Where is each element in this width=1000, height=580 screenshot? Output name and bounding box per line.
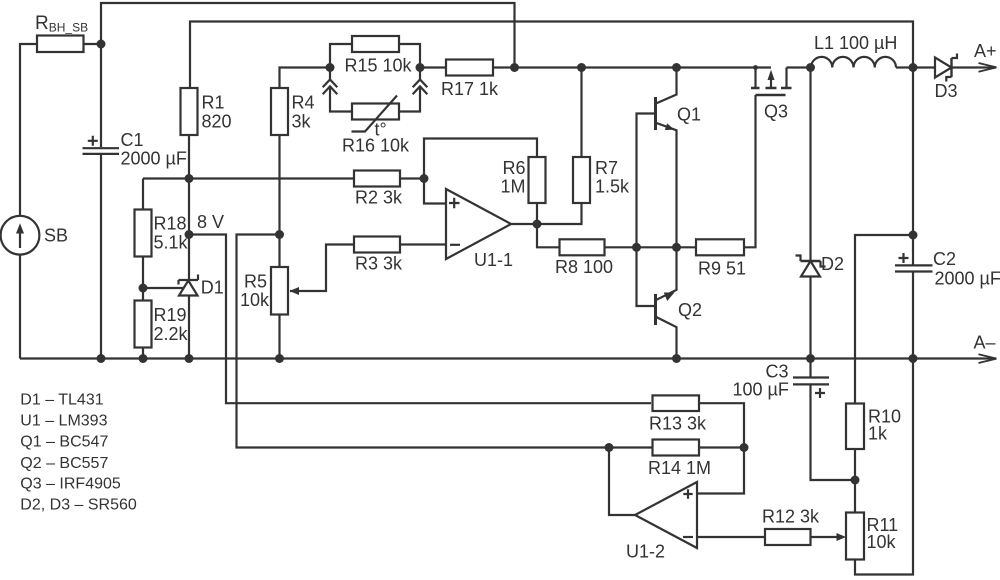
resistor R15 <box>345 36 413 76</box>
svg-text:R16 10k: R16 10k <box>342 136 410 156</box>
resistor R19 <box>135 301 189 348</box>
resistor R_BH_SB <box>35 13 88 52</box>
legend text <box>20 392 137 514</box>
svg-text:1.5k: 1.5k <box>595 177 630 197</box>
resistor R14 <box>648 440 711 479</box>
svg-text:C3: C3 <box>766 362 789 382</box>
wire right column from D3 node down to C2 top plate <box>912 68 914 266</box>
resistor R18 <box>135 210 189 257</box>
svg-text:Q2: Q2 <box>678 300 702 320</box>
resistor R9 <box>696 239 746 278</box>
wire top feedback line from R_BH_SB node up and across to R17 right node <box>101 3 515 68</box>
wire from Q3 drain corner to L1 left node <box>787 66 812 68</box>
node L1 right / D3 anode <box>909 63 918 72</box>
svg-text:D2: D2 <box>821 254 844 274</box>
wire R7 bottom bend to output node <box>537 203 582 224</box>
wire R19 bottom to A- rail <box>142 348 144 359</box>
svg-text:U1-1: U1-1 <box>474 250 513 270</box>
wire from L1 right to D3 anode <box>896 66 935 68</box>
wire R4/R5 node across and down to R14 left <box>237 235 653 448</box>
wire D1 anode down to A- rail <box>188 296 190 359</box>
node U1-1 output <box>533 220 542 229</box>
svg-text:R7: R7 <box>595 158 618 178</box>
current source SB <box>1 216 68 255</box>
svg-text:A–: A– <box>974 333 996 353</box>
svg-text:R1: R1 <box>202 93 225 113</box>
node rail R5 <box>275 354 284 363</box>
wire from R_BH_SB right end to node <box>83 43 101 45</box>
svg-text:R18: R18 <box>154 214 187 234</box>
wire Q1 emitter to shared node <box>657 123 677 247</box>
node R17 right <box>510 63 519 72</box>
svg-text:SB: SB <box>44 226 68 246</box>
svg-text:Q2 – BC557: Q2 – BC557 <box>20 455 108 472</box>
potentiometer R11 <box>837 513 899 560</box>
svg-text:D3: D3 <box>935 81 958 101</box>
svg-text:C2: C2 <box>933 249 956 269</box>
wire corner down to R18 top <box>142 179 144 210</box>
resistor R3 <box>354 237 403 274</box>
chevron marks right of R15/R16 pair <box>413 80 428 95</box>
wire output node down to R8 left <box>537 224 560 247</box>
wire node row y=178.5 from R18 corner to R2 left <box>143 177 354 179</box>
node L1 left / D2 top <box>806 63 815 72</box>
resistor R2 <box>354 171 403 208</box>
wire top rail from R1 top across to right column <box>190 22 913 89</box>
svg-text:RBH_SB: RBH_SB <box>35 13 88 34</box>
wire R15 upper branch <box>330 44 420 68</box>
resistor R1 <box>181 88 232 135</box>
wire R13 right bend down through node to U1-2 plus input <box>697 403 744 493</box>
svg-text:R8 100: R8 100 <box>555 257 613 277</box>
output arrow A+ <box>974 41 997 72</box>
wire branch from right column node to R10 top <box>855 235 913 404</box>
wire from R17 right to Q3 source junction <box>493 66 756 68</box>
wire R14 right to node <box>699 446 744 448</box>
wire from R15/R16 right node to R17 <box>420 66 446 68</box>
svg-text:R6: R6 <box>502 158 525 178</box>
wire A- bottom rail <box>20 357 996 359</box>
wire Q2 emitter from shared node <box>656 247 677 300</box>
svg-text:100 µF: 100 µF <box>733 380 789 400</box>
node 8V <box>185 230 194 239</box>
node rail R19 <box>139 354 148 363</box>
svg-text:A+: A+ <box>974 41 997 61</box>
wire R9 right bend up to Q3 gate <box>744 95 756 247</box>
node R18/R19 junction <box>139 284 148 293</box>
wire U1-2 minus input to R12 left <box>697 536 765 538</box>
wire C1 column upper segment from node to C1 top plate <box>100 44 102 147</box>
potentiometer R5 <box>240 267 299 315</box>
svg-text:2000 µF: 2000 µF <box>935 269 1000 289</box>
wire 8V node across and down to R13 left <box>189 235 651 404</box>
svg-text:R9 51: R9 51 <box>698 259 746 279</box>
svg-text:C1: C1 <box>121 130 144 150</box>
transistor Q2 <box>656 293 703 326</box>
svg-text:2.2k: 2.2k <box>154 324 189 344</box>
resistor R13 <box>649 395 707 433</box>
svg-text:10k: 10k <box>867 532 897 552</box>
wire R6 bottom to output node <box>536 203 538 224</box>
svg-text:R2 3k: R2 3k <box>355 188 403 208</box>
svg-text:L1 100 µH: L1 100 µH <box>814 33 897 53</box>
wire R18 bottom to R19 top through junction <box>142 257 144 301</box>
node Q1 collector <box>672 63 681 72</box>
node R15/R16 right <box>416 63 425 72</box>
node R10 branch <box>909 231 918 240</box>
wire R7 top lead to main row <box>580 68 582 158</box>
svg-text:Q1: Q1 <box>677 105 701 125</box>
svg-text:R19: R19 <box>154 305 187 325</box>
node rail C2 <box>909 354 918 363</box>
wire feedback node down to U1-1 plus input <box>424 179 446 204</box>
schottky diode D2 <box>796 254 845 277</box>
svg-text:2000 µF: 2000 µF <box>121 149 187 169</box>
node rail D2/C3 <box>806 354 815 363</box>
resistor R6 <box>500 157 545 203</box>
resistor R8 <box>555 239 613 277</box>
schottky diode D3 <box>935 54 958 102</box>
wire D2 anode down to A- rail node <box>809 277 811 378</box>
svg-text:R3 3k: R3 3k <box>355 254 403 274</box>
wire R16 lower branch <box>330 68 420 112</box>
wire D1 reference lead from divider junction <box>143 287 184 289</box>
thermistor R16 <box>342 96 410 156</box>
wire Q1 collector from main row <box>657 68 677 104</box>
chevron marks left of R15/R16 pair <box>323 80 338 95</box>
node Q1/Q2 base <box>632 243 641 252</box>
output arrow A- <box>974 333 997 364</box>
svg-text:10k: 10k <box>240 290 270 310</box>
node rail C1 <box>97 354 106 363</box>
wire main row y=67.5: R4 top lead and corner to R15/R16 left node <box>280 68 331 89</box>
inductor L1 <box>811 33 897 68</box>
svg-text:820: 820 <box>202 112 232 132</box>
svg-text:5.1k: 5.1k <box>154 233 189 253</box>
svg-text:R12 3k: R12 3k <box>762 507 820 527</box>
wire from R_BH_SB left end down to SB source top <box>20 44 37 216</box>
capacitor C3 <box>733 362 830 400</box>
resistor R4 <box>271 88 315 135</box>
svg-text:D1: D1 <box>201 278 224 298</box>
svg-text:Q3: Q3 <box>764 102 788 122</box>
svg-text:D1 – TL431: D1 – TL431 <box>20 392 103 409</box>
node U1-2 output on R14 line <box>605 443 614 452</box>
node R2 right feedback <box>420 174 429 183</box>
wire feedback node up and across to R6 top <box>424 139 537 179</box>
wire D2 column from main row to D2 cathode <box>809 68 811 262</box>
svg-text:1M: 1M <box>500 177 525 197</box>
svg-text:3k: 3k <box>292 112 312 132</box>
wire R10 bottom to R11 top through node <box>854 449 856 513</box>
zener D1 TL431 <box>179 275 224 298</box>
svg-text:R13 3k: R13 3k <box>649 414 707 434</box>
wire Q2 collector to A- rail <box>656 317 677 359</box>
wire R8 right to R9 left through base node and emitter node <box>605 246 697 248</box>
transistor Q3 mosfet <box>751 65 792 121</box>
wire R2 right to feedback node <box>400 177 424 179</box>
svg-text:Q3 – IRF4905: Q3 – IRF4905 <box>20 476 121 493</box>
svg-text:R17 1k: R17 1k <box>441 79 499 99</box>
node rail Q2 collector <box>672 354 681 363</box>
svg-text:R5: R5 <box>244 272 267 292</box>
node emitters / R9 left <box>672 243 681 252</box>
node R10/R11 junction <box>851 476 860 485</box>
node R7 top <box>577 63 586 72</box>
wire R5 bottom to A- rail <box>278 315 280 359</box>
resistor R10 <box>846 404 901 450</box>
node R4/R5 <box>275 230 284 239</box>
svg-text:U1 – LM393: U1 – LM393 <box>20 412 107 429</box>
capacitor C1 <box>83 130 187 169</box>
wire from SB source bottom to A- rail <box>19 255 21 359</box>
node R1 bottom / R2 left <box>185 174 194 183</box>
resistor R17 <box>441 60 499 100</box>
transistor Q1 <box>656 97 702 130</box>
resistor R12 <box>762 507 820 546</box>
wire R3 right to U1-1 minus input <box>400 243 446 245</box>
svg-text:1k: 1k <box>868 424 888 444</box>
wire C3 bottom bend to R10/R11 node <box>811 384 856 480</box>
node at R_BH_SB right <box>97 40 106 49</box>
svg-text:R4: R4 <box>292 93 315 113</box>
svg-text:U1-2: U1-2 <box>626 542 665 562</box>
svg-text:D2, D3 – SR560: D2, D3 – SR560 <box>20 496 137 513</box>
capacitor C2 <box>895 249 1000 289</box>
wire U1-1 output to node <box>511 223 537 225</box>
svg-text:8 V: 8 V <box>197 212 224 232</box>
op-amp U1-2 <box>626 482 697 562</box>
wire C1 column lower segment from C1 bottom plate to A- rail <box>100 155 102 359</box>
svg-text:R14 1M: R14 1M <box>648 458 711 478</box>
svg-text:R15 10k: R15 10k <box>345 56 413 76</box>
wire C2 bottom plate to A- rail <box>912 272 914 359</box>
op-amp U1-1 <box>446 189 513 270</box>
resistor R7 <box>573 157 630 203</box>
svg-text:Q1 – BC547: Q1 – BC547 <box>20 434 108 451</box>
wire A- rail down to R11 bottom return <box>855 359 913 575</box>
wire R5 wiper bend up to R3 left <box>290 245 354 292</box>
node R13/R14 right <box>740 443 749 452</box>
wire R1 column down through 8V node to D1 cathode <box>188 179 190 281</box>
wire Q1/Q2 base column <box>637 114 656 307</box>
wire from D3 cathode to A+ arrow <box>952 66 997 68</box>
wire U1-2 output bend up to R14 line node <box>609 448 635 516</box>
node R15/R16 left <box>326 63 335 72</box>
node rail D1 <box>185 354 194 363</box>
wire R12 right to R11 wiper arrow <box>811 536 841 538</box>
wire R1 bottom lead to node row <box>188 135 190 179</box>
wire R4 bottom to R5 top through node <box>278 135 280 267</box>
